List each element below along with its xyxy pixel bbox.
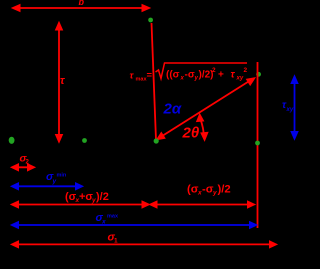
svg-text:2: 2 bbox=[212, 67, 216, 74]
svg-text:2θ: 2θ bbox=[182, 125, 200, 142]
svg-text:τ: τ bbox=[60, 75, 65, 87]
svg-text:2α: 2α bbox=[163, 101, 182, 118]
label (sigma_x-sigma_y)/2 bbox=[187, 184, 231, 197]
svg-text:y: y bbox=[52, 178, 57, 185]
label sigma_1 bbox=[108, 232, 119, 245]
label tau_xy bbox=[282, 100, 294, 113]
dimension arrow sigma_2 bbox=[11, 164, 35, 171]
label sigma_y^min (blue) bbox=[46, 171, 67, 185]
label sigma_2 bbox=[20, 153, 30, 166]
svg-text:xy: xy bbox=[236, 76, 244, 82]
node: state point (sigma_x, tau_xy) green bbox=[256, 72, 261, 77]
svg-text:)/2: )/2 bbox=[96, 191, 109, 203]
svg-text:=: = bbox=[147, 70, 153, 81]
dimension arrow sigma_y (blue) bbox=[11, 183, 83, 190]
node sigma_2 (green, far left) bbox=[9, 137, 15, 144]
formula tau_max = sqrt(((sx-sy)/2)^2 + txy^2) bbox=[130, 63, 248, 83]
node sigma_x foot (green) bbox=[255, 141, 260, 146]
radius arrow tau_max (diagonal, double-headed) bbox=[157, 78, 256, 140]
dimension arrow (sx+sy)/2 bbox=[11, 201, 150, 208]
svg-text:((σ: ((σ bbox=[166, 70, 180, 81]
svg-text:(σ: (σ bbox=[187, 184, 199, 196]
label sigma_x^max (blue) bbox=[96, 212, 119, 226]
dimension arrow tau_xy (blue, right) bbox=[291, 76, 298, 140]
svg-text:min: min bbox=[57, 173, 67, 179]
dimension arrow sigma_x (blue) bbox=[11, 222, 257, 229]
svg-text:-σ: -σ bbox=[185, 70, 195, 81]
svg-text:1: 1 bbox=[114, 238, 118, 245]
node: top point (green) bbox=[148, 18, 153, 23]
dimension arrow (sx-sy)/2 bbox=[150, 201, 256, 208]
angle arc arrow 2theta (double-headed) bbox=[197, 114, 208, 141]
node sigma_y point (green) bbox=[82, 138, 87, 143]
dimension arrow b (top) bbox=[12, 5, 150, 12]
svg-text:2: 2 bbox=[244, 67, 248, 74]
svg-text:xy: xy bbox=[286, 107, 294, 113]
wire from point (sigma_y, tau) down to center bbox=[152, 23, 157, 140]
svg-text:+: + bbox=[218, 70, 224, 81]
wire vertical sigma_x line bbox=[257, 62, 259, 228]
svg-text:y: y bbox=[212, 190, 217, 197]
dimension arrow sigma_1 bbox=[11, 241, 277, 248]
svg-text:max: max bbox=[107, 214, 119, 220]
dimension arrow tau (vertical, left) bbox=[56, 22, 63, 143]
svg-text:b: b bbox=[79, 0, 85, 7]
svg-text:)/2: )/2 bbox=[218, 184, 231, 196]
node center of circle (green) bbox=[154, 138, 159, 143]
label (sigma_x+sigma_y)/2 bbox=[65, 191, 109, 204]
svg-text:-σ: -σ bbox=[202, 184, 214, 196]
